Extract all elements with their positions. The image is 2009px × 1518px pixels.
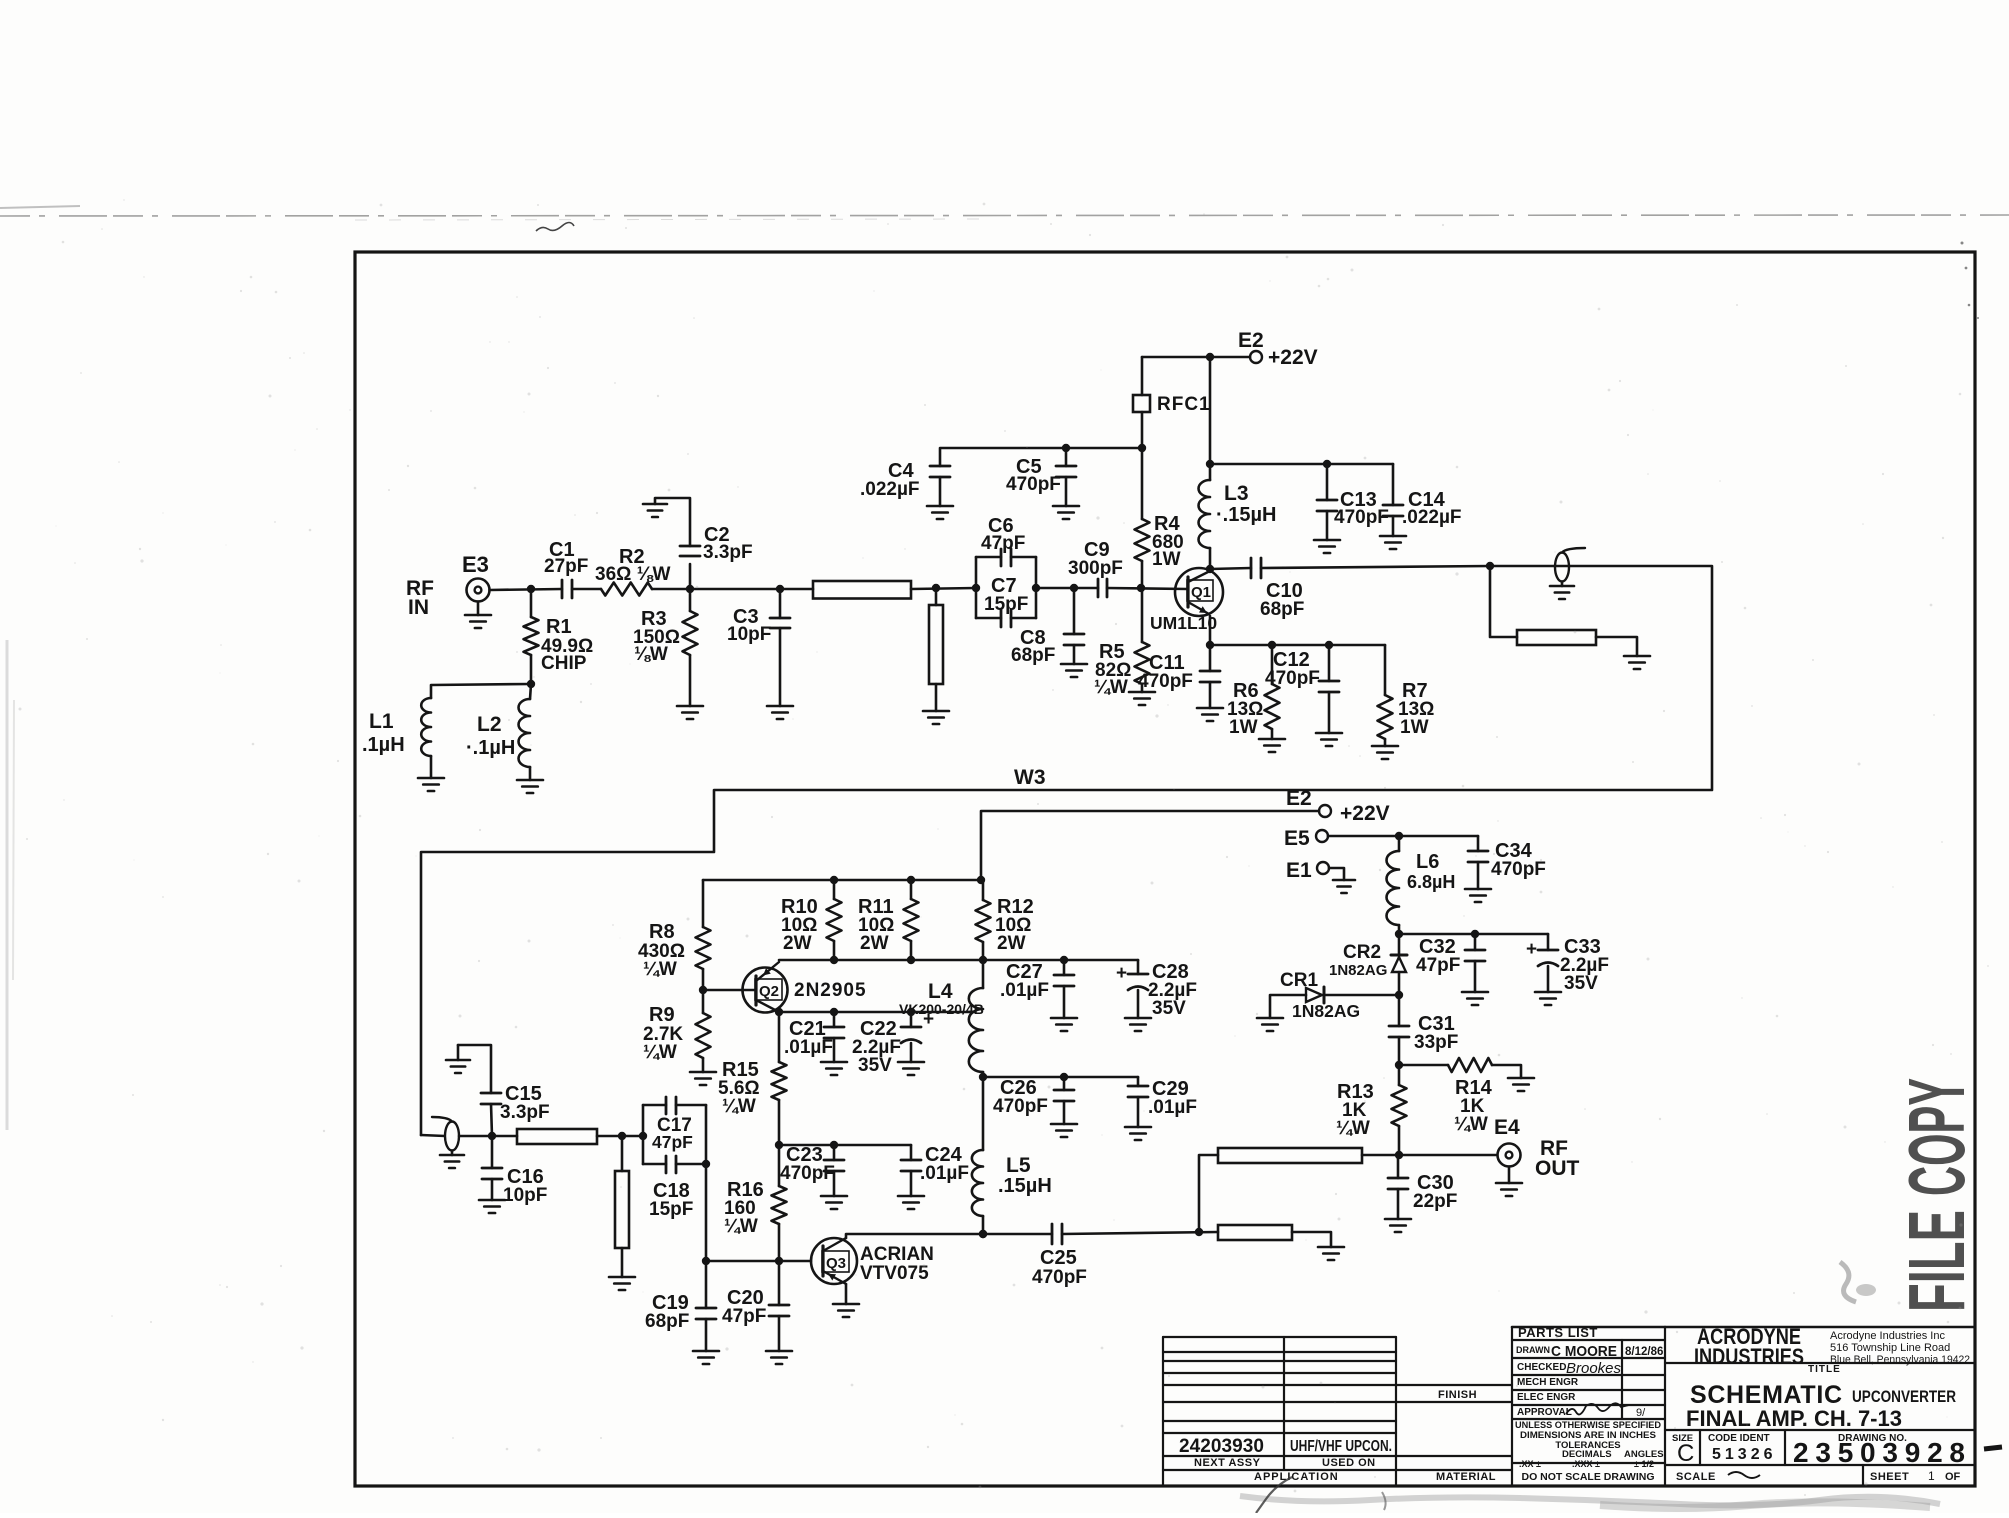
svg-text:SCALE: SCALE <box>1676 1471 1716 1483</box>
svg-text:1W: 1W <box>1229 717 1258 738</box>
transmission line stripline TL1 <box>780 588 813 591</box>
svg-text:3.3pF: 3.3pF <box>500 1102 550 1123</box>
svg-text:¼W: ¼W <box>1454 1114 1488 1135</box>
svg-text:SHEET: SHEET <box>1870 1471 1909 1483</box>
capacitor C1 27pF <box>561 580 564 598</box>
svg-text:.022µF: .022µF <box>1402 507 1462 528</box>
svg-text:Acrodyne Industries Inc: Acrodyne Industries Inc <box>1830 1330 1945 1342</box>
svg-text:RFC1: RFC1 <box>1157 394 1211 415</box>
ground below C16 <box>479 1199 505 1202</box>
capacitor C33 2.2uF 35V polarized <box>1547 934 1550 950</box>
capacitor C26 470pF <box>1063 1077 1066 1090</box>
shorted stub stripline below TL1 <box>935 588 938 605</box>
svg-text:2N2905: 2N2905 <box>794 980 867 1001</box>
ground right of TL2 <box>1624 655 1650 658</box>
shorted stub stripline below TL5 <box>621 1136 624 1171</box>
transistor Q1 UM1L10 <box>1206 565 1214 573</box>
svg-text:USED ON: USED ON <box>1322 1457 1376 1469</box>
ground below C3 <box>767 705 793 708</box>
svg-text:ELEC ENGR: ELEC ENGR <box>1517 1392 1576 1403</box>
svg-text:47pF: 47pF <box>722 1306 766 1327</box>
ground below Q3 emitter <box>845 1284 848 1304</box>
svg-text:FILE: FILE <box>1892 1210 1981 1312</box>
capacitor C27 .01uF <box>1063 960 1066 975</box>
connector E4 (RF OUT) <box>1398 1154 1497 1157</box>
transmission line stripline TL5 (amp input) <box>517 1129 597 1144</box>
svg-text:C: C <box>1677 1440 1694 1467</box>
capacitor C5 470pF <box>1062 444 1070 452</box>
svg-text:Q2: Q2 <box>759 983 779 1000</box>
svg-text:UM1L10: UM1L10 <box>1150 613 1217 633</box>
svg-text:DO NOT SCALE DRAWING: DO NOT SCALE DRAWING <box>1522 1471 1655 1483</box>
svg-text:1: 1 <box>1928 1469 1935 1483</box>
svg-text:VK200-20/4B: VK200-20/4B <box>899 1001 984 1017</box>
svg-text:300pF: 300pF <box>1068 558 1123 579</box>
svg-text:¼W: ¼W <box>1336 1118 1370 1139</box>
svg-text:36Ω ⅛W: 36Ω ⅛W <box>595 564 670 585</box>
wire box to C9 node <box>1036 587 1098 590</box>
svg-text:⅛W: ⅛W <box>634 644 668 665</box>
svg-text:DRAWN: DRAWN <box>1516 1345 1550 1355</box>
ground below E4 <box>1508 1167 1511 1184</box>
wire input box to Q3 base node <box>705 1164 708 1261</box>
svg-text:MECH ENGR: MECH ENGR <box>1517 1377 1579 1388</box>
resistor R7 13ohm 1W <box>1384 645 1387 695</box>
svg-text:VTV075: VTV075 <box>860 1263 929 1284</box>
ground below C13 <box>1314 539 1340 542</box>
inductor L3 .15uH <box>1199 480 1210 548</box>
svg-text:E2: E2 <box>1286 787 1312 810</box>
rail from L3 top to C13 C14 <box>1210 463 1393 466</box>
capacitor C12 470pF <box>1325 641 1333 649</box>
ground below CR1 <box>1257 1017 1283 1020</box>
svg-text:UHF/VHF UPCON.: UHF/VHF UPCON. <box>1290 1438 1392 1455</box>
capacitor C24 .01uF <box>910 1145 913 1160</box>
capacitor C29 .01uF <box>1137 1077 1140 1086</box>
amp top rail <box>703 879 981 882</box>
svg-text:3.3pF: 3.3pF <box>703 542 753 563</box>
svg-text:L1: L1 <box>369 710 394 733</box>
wire W3 loop from top circuit to lower amp <box>421 566 1712 1135</box>
svg-text:2W: 2W <box>860 933 889 954</box>
Q3 base rail <box>706 1260 811 1263</box>
capacitor C30 22pF <box>1397 1155 1400 1178</box>
ferrite choke L4 VK200-20/4B <box>969 988 983 1072</box>
title block grid <box>1162 1337 1164 1486</box>
wire E2 to amp top rail <box>981 811 1319 880</box>
svg-text:MATERIAL: MATERIAL <box>1436 1471 1496 1483</box>
svg-text:C MOORE: C MOORE <box>1551 1343 1617 1360</box>
svg-text:470pF: 470pF <box>1032 1267 1087 1288</box>
ground at E1 <box>1333 879 1355 882</box>
capacitor C22 2.2uF 35V polarized <box>910 1012 913 1027</box>
capacitor C9 300pF <box>1097 579 1100 597</box>
transistor Q2 2N2905 <box>743 968 788 1013</box>
coax feedthrough at amp input <box>421 1135 445 1136</box>
drawing border frame <box>355 252 1975 1486</box>
svg-text:·.15µH: ·.15µH <box>1216 504 1276 526</box>
svg-text:1W: 1W <box>1400 717 1429 738</box>
svg-text:R8: R8 <box>649 921 675 943</box>
scan specks near top-right corner <box>1961 242 1980 320</box>
ground below C4 <box>927 505 953 508</box>
RF choke RFC1 <box>1141 357 1144 395</box>
svg-text:24203930: 24203930 <box>1179 1436 1264 1457</box>
svg-text:NEXT ASSY: NEXT ASSY <box>1194 1457 1261 1469</box>
ground below R3 <box>677 705 703 708</box>
ground below E3 <box>477 602 480 616</box>
ground below R14 <box>1508 1077 1534 1080</box>
Q3 collector rail to output <box>846 1234 1052 1238</box>
svg-text:FINISH: FINISH <box>1438 1389 1477 1401</box>
resistor R3 150ohm 1/8W <box>689 589 692 611</box>
svg-text:Q3: Q3 <box>826 1255 846 1272</box>
svg-text:Blue Bell, Pennsylvania 19422: Blue Bell, Pennsylvania 19422 <box>1830 1354 1970 1366</box>
scanner smudges bottom right <box>1240 1496 1940 1505</box>
inductor L6 6.8uH <box>1398 836 1401 851</box>
diode CR2 1N82AG <box>1398 934 1401 955</box>
rail L6 to C32 C33 <box>1399 933 1548 936</box>
capacitor C34 470pF <box>1477 836 1480 851</box>
svg-text:1W: 1W <box>1152 549 1181 570</box>
resistor R11 10ohm 2W <box>910 880 913 899</box>
ground below C20 <box>766 1350 792 1353</box>
svg-text:35V: 35V <box>858 1055 892 1076</box>
wire E3 to C1 <box>490 589 563 590</box>
svg-text:¼W: ¼W <box>1094 677 1128 698</box>
svg-text:R1: R1 <box>546 616 572 638</box>
svg-text:E4: E4 <box>1494 1116 1520 1139</box>
svg-text:E1: E1 <box>1286 859 1312 882</box>
svg-text:W3: W3 <box>1014 766 1046 789</box>
svg-text:APPROVAL: APPROVAL <box>1517 1407 1572 1418</box>
svg-text:E3: E3 <box>462 552 489 577</box>
svg-text:8/12/86: 8/12/86 <box>1625 1346 1663 1358</box>
svg-text:E2: E2 <box>1238 329 1264 352</box>
ground below R7 <box>1372 745 1398 748</box>
resistor R5 82ohm 1/4W <box>1141 588 1144 642</box>
ground below C28 <box>1125 1017 1151 1020</box>
base wire R8/R9 to Q2 <box>703 989 756 992</box>
capacitor C25 470pF <box>1051 1224 1054 1244</box>
capacitor C14 .022uF <box>1392 464 1395 505</box>
resistor R2 36ohm 1/8W <box>601 583 652 596</box>
svg-text:1N82AG: 1N82AG <box>1292 1001 1360 1021</box>
ground below C26 <box>1051 1123 1077 1126</box>
ground above C15 <box>446 1059 470 1062</box>
svg-text:33pF: 33pF <box>1414 1032 1458 1053</box>
svg-text:+: + <box>1116 963 1127 984</box>
wire E2 node down to L3 rail <box>1209 357 1212 480</box>
ground below C24 <box>898 1195 924 1198</box>
svg-text:.XXX ±: .XXX ± <box>1572 1459 1600 1469</box>
capacitor C19 68pF <box>705 1261 708 1308</box>
svg-text:¼W: ¼W <box>724 1216 758 1237</box>
ground below R6 <box>1259 738 1285 741</box>
svg-text:OF: OF <box>1945 1471 1961 1483</box>
svg-text:470pF: 470pF <box>1491 859 1546 880</box>
capacitor C11 470pF <box>1209 645 1212 671</box>
svg-text:.15µH: .15µH <box>998 1175 1052 1197</box>
svg-text:Q1: Q1 <box>1191 584 1211 601</box>
ground below C34 <box>1465 888 1491 891</box>
svg-text:68pF: 68pF <box>645 1311 689 1332</box>
svg-text:CODE IDENT: CODE IDENT <box>1708 1433 1770 1444</box>
svg-text:2W: 2W <box>997 933 1026 954</box>
svg-text:+22V: +22V <box>1340 802 1390 825</box>
resistor R6 13ohm 1W <box>1268 641 1276 649</box>
svg-text:35V: 35V <box>1564 973 1598 994</box>
svg-text:+: + <box>1526 939 1537 960</box>
svg-text:15pF: 15pF <box>649 1199 693 1220</box>
capacitor C17 47pF (top of input box) <box>642 1105 645 1164</box>
svg-text:CHECKED: CHECKED <box>1517 1362 1566 1373</box>
ground below C32 <box>1462 991 1488 994</box>
ground below R5 <box>1129 691 1155 694</box>
resistor R10 10ohm 2W <box>833 880 836 899</box>
ground below L2 <box>517 779 543 782</box>
ground below C11 <box>1197 707 1223 710</box>
svg-text:470pF: 470pF <box>780 1163 835 1184</box>
terminal E2 +22V (lower) <box>1319 805 1331 817</box>
svg-text:FINAL AMP. CH. 7-13: FINAL AMP. CH. 7-13 <box>1686 1406 1902 1431</box>
capacitor C13 470pF <box>1326 464 1329 500</box>
svg-text:.01µF: .01µF <box>1000 980 1049 1001</box>
svg-text:47pF: 47pF <box>1416 955 1460 976</box>
svg-text:.1µH: .1µH <box>362 734 405 756</box>
svg-text:COPY: COPY <box>1892 1078 1981 1196</box>
capacitor C18 15pF (bottom of input box) <box>643 1163 666 1166</box>
resistor R13 1K 1/4W <box>1398 1065 1401 1085</box>
C26/C29 rail <box>983 1076 1138 1079</box>
rail R15 to C23 C24 <box>779 1144 911 1147</box>
svg-text:OUT: OUT <box>1535 1157 1580 1180</box>
stripline TL3 (output line) <box>1199 1155 1218 1232</box>
ground below input coax <box>440 1154 464 1157</box>
ground below C27 <box>1051 1017 1077 1020</box>
svg-text:.01µF: .01µF <box>920 1163 969 1184</box>
ground below C5 <box>1053 505 1079 508</box>
resistor R14 1K 1/4W <box>1399 1064 1448 1067</box>
ground below C33 <box>1535 991 1561 994</box>
svg-text:L3: L3 <box>1224 482 1249 505</box>
ground below C29 <box>1125 1126 1151 1129</box>
svg-text:CR2: CR2 <box>1343 942 1381 963</box>
svg-text:TITLE: TITLE <box>1808 1364 1841 1375</box>
ground below C30 <box>1385 1218 1411 1221</box>
ground right of TL4 <box>1318 1246 1344 1249</box>
svg-text:47pF: 47pF <box>652 1132 693 1152</box>
svg-text:22pF: 22pF <box>1413 1191 1457 1212</box>
resistor R9 2.7K 1/4W <box>702 990 705 1013</box>
svg-text:6.8µH: 6.8µH <box>1407 872 1455 892</box>
svg-text:.022µF: .022µF <box>860 479 920 500</box>
svg-text:C25: C25 <box>1040 1247 1077 1269</box>
capacitor C7 15pF (bottom of matching box) <box>976 617 1001 620</box>
ground below C21 <box>821 1061 847 1064</box>
diode CR1 1N82AG <box>1324 994 1399 997</box>
resistor R16 160 1/4W <box>778 1145 781 1186</box>
resistor R4 680 1W <box>1141 448 1144 519</box>
terminal E2 +22V (top) <box>1142 356 1250 359</box>
svg-text:SCHEMATIC: SCHEMATIC <box>1690 1381 1842 1409</box>
FILE COPY stamp <box>1892 1078 1981 1312</box>
svg-text:51326: 51326 <box>1712 1446 1777 1463</box>
svg-text:CHIP: CHIP <box>541 653 587 674</box>
svg-text:¼W: ¼W <box>643 1042 677 1063</box>
ground below C12 <box>1316 732 1342 735</box>
capacitor C21 .01uF <box>833 1012 836 1027</box>
capacitor C20 47pF <box>778 1261 781 1305</box>
svg-text:L5: L5 <box>1006 1154 1031 1177</box>
capacitor C10 68pF <box>1210 568 1251 569</box>
transistor Q3 ACRIAN VTV075 <box>811 1238 857 1284</box>
ground below R9 <box>690 1071 716 1074</box>
svg-text:470pF: 470pF <box>1265 668 1320 689</box>
svg-text:68pF: 68pF <box>1260 599 1304 620</box>
capacitor C32 47pF <box>1474 934 1477 950</box>
svg-text:35V: 35V <box>1152 998 1186 1019</box>
svg-text:2W: 2W <box>783 933 812 954</box>
ground below C23 <box>821 1195 847 1198</box>
svg-text:27pF: 27pF <box>544 556 588 577</box>
ground below C8 <box>1061 663 1087 666</box>
ground below input stub <box>609 1276 635 1279</box>
svg-text:.01µF: .01µF <box>784 1037 833 1058</box>
capacitor C6 47pF (top of matching box) <box>975 557 978 618</box>
svg-text:516 Township Line Road: 516 Township Line Road <box>1830 1342 1950 1354</box>
svg-text:68pF: 68pF <box>1011 645 1055 666</box>
svg-text:1N82AG: 1N82AG <box>1329 962 1387 979</box>
revision dash in margin <box>1984 1447 2002 1449</box>
inductor L2 .1uH <box>530 684 531 699</box>
svg-text:470pF: 470pF <box>993 1096 1048 1117</box>
svg-text:15pF: 15pF <box>984 594 1028 615</box>
svg-text:10pF: 10pF <box>503 1185 547 1206</box>
capacitor C16 10pF <box>491 1136 494 1168</box>
scan artifact: small squiggle top-left <box>536 223 574 232</box>
svg-text:¼W: ¼W <box>643 959 677 980</box>
bias rail (Q2 emitter) <box>779 959 1138 962</box>
svg-text:9/: 9/ <box>1636 1407 1646 1419</box>
resistor R12 10ohm 2W <box>982 880 985 900</box>
svg-text:IN: IN <box>408 596 429 619</box>
capacitor C15 3.3pF with grounded top <box>458 1045 491 1093</box>
inductor L1 .1uH <box>431 684 531 698</box>
svg-text:R9: R9 <box>649 1004 675 1026</box>
resistor R15 5.6ohm 1/4W <box>778 1012 781 1062</box>
ground above C2 <box>643 503 667 506</box>
capacitor C23 470pF <box>833 1145 836 1160</box>
svg-text:10pF: 10pF <box>727 624 771 645</box>
svg-text:E5: E5 <box>1284 827 1310 850</box>
ground below C19 <box>693 1350 719 1353</box>
Q2 collector rail <box>775 1008 783 1016</box>
svg-text:Brookes: Brookes <box>1566 1360 1622 1377</box>
ground below stub <box>923 710 949 713</box>
svg-text:CR1: CR1 <box>1280 970 1318 991</box>
svg-text:470pF: 470pF <box>1006 474 1061 495</box>
svg-text:+22V: +22V <box>1268 346 1318 369</box>
ground below L1 <box>418 777 444 780</box>
svg-text:47pF: 47pF <box>981 533 1025 554</box>
svg-text:.XX ±: .XX ± <box>1519 1459 1541 1469</box>
svg-text:470pF: 470pF <box>1334 507 1389 528</box>
ground below coax <box>1550 585 1574 588</box>
svg-text:L4: L4 <box>928 980 953 1003</box>
stripline TL4 to ground <box>1218 1225 1292 1240</box>
left margin scan streaks <box>6 640 9 1130</box>
svg-text:L2: L2 <box>477 713 502 736</box>
inductor L5 .15uH <box>982 1077 985 1150</box>
resistor R1 49.9ohm CHIP <box>530 589 533 617</box>
capacitor C3 10pF shunt <box>776 585 784 593</box>
svg-text:INDUSTRIES: INDUSTRIES <box>1694 1344 1804 1369</box>
svg-text:L6: L6 <box>1416 851 1439 873</box>
scan artifact: broken horizontal line at top <box>0 215 2009 216</box>
ground below C14 <box>1380 535 1406 538</box>
svg-text:·.1µH: ·.1µH <box>466 737 515 759</box>
svg-text:UPCONVERTER: UPCONVERTER <box>1852 1387 1956 1406</box>
stripline TL2 to ground <box>1486 562 1494 570</box>
coax feedthrough on Q1 output line <box>1555 553 1569 582</box>
capacitor C4 .022uF <box>940 448 1142 466</box>
svg-text:APPLICATION: APPLICATION <box>1254 1471 1339 1483</box>
svg-text:ACRIAN: ACRIAN <box>860 1244 934 1265</box>
resistor R8 430ohm 1/4W <box>702 880 705 927</box>
emitter rail of Q1 <box>1209 616 1212 645</box>
capacitor C28 2.2uF 35V polarized <box>1137 960 1140 974</box>
ground below C22 <box>898 1061 924 1064</box>
svg-text:.01µF: .01µF <box>1148 1097 1197 1118</box>
capacitor C8 68pF shunt <box>1073 588 1076 634</box>
svg-text:470pF: 470pF <box>1138 671 1193 692</box>
capacitor C31 33pF <box>1398 995 1401 1026</box>
svg-text:¼W: ¼W <box>722 1096 756 1117</box>
svg-text:± 1/2: ± 1/2 <box>1634 1459 1654 1469</box>
capacitor C2 3.3pF shunt to top ground <box>689 564 692 589</box>
